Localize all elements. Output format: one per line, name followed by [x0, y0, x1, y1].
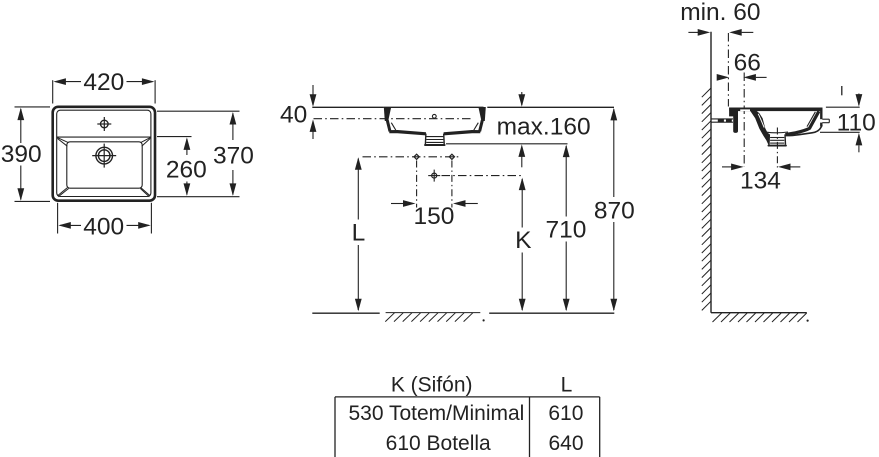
washbasin top view outer rim [53, 107, 155, 201]
table box [335, 397, 600, 457]
dimension 390 extension lines [15, 107, 51, 201]
dimension 390 line and arrows [17, 108, 24, 201]
dimension K line [519, 178, 526, 312]
svg-text:370: 370 [213, 143, 254, 170]
svg-text:640: 640 [548, 432, 583, 455]
table row 2 K value [386, 432, 491, 455]
svg-text:max.160: max.160 [497, 113, 591, 140]
ground hatching [385, 313, 484, 322]
dimension 390 text [1, 141, 42, 168]
svg-text:110: 110 [837, 109, 876, 136]
front basin left rim wedge [384, 107, 391, 121]
svg-text:390: 390 [1, 141, 42, 168]
svg-text:150: 150 [413, 203, 454, 230]
dimension 370 extension lines [157, 111, 240, 197]
svg-text:400: 400 [83, 214, 124, 241]
countertop line right of basin [487, 106, 614, 108]
front basin overflow hole [432, 114, 436, 118]
svg-text:134: 134 [740, 167, 781, 194]
front basin bottom right [444, 132, 481, 134]
dimension 134 arrows [722, 164, 800, 171]
dimension 110 tick [841, 86, 843, 95]
dimension 110 text [837, 109, 876, 136]
dimension 400 text [83, 214, 124, 241]
svg-text:40: 40 [280, 102, 307, 129]
side basin drain boss [769, 134, 786, 145]
basin front rim line [384, 106, 484, 108]
svg-text:870: 870 [594, 197, 635, 224]
dimension max.160 bottom arrow [518, 144, 525, 167]
floor hatching [713, 313, 809, 322]
top view deck line [57, 136, 151, 138]
dimension 370 line and arrows [230, 112, 237, 196]
dimension 400 line and arrows [58, 222, 150, 229]
svg-text:K (Sifón): K (Sifón) [391, 374, 473, 397]
dimension 370 text [213, 143, 254, 170]
countertop tab right (side view) [822, 119, 829, 123]
svg-text:260: 260 [166, 156, 207, 183]
drain axis centerline (side) [776, 128, 778, 168]
dimension 150 text [413, 203, 454, 230]
side basin bowl wall left inner hairline [758, 114, 764, 128]
front basin right wall [474, 120, 483, 131]
dimension 40 text [280, 102, 307, 129]
dimension 110 arrows [856, 94, 863, 153]
front basin drain boss [425, 134, 445, 145]
dimension 110 extension lines [820, 107, 860, 132]
svg-text:530 Totem/Minimal: 530 Totem/Minimal [348, 402, 524, 425]
dimension 420 line and arrows [53, 78, 154, 85]
top view bowl outline [67, 142, 142, 188]
max.160 bottom extension line [446, 143, 568, 145]
floor line [711, 312, 807, 314]
svg-text:610 Botella: 610 Botella [386, 432, 491, 455]
wall hatching [702, 88, 711, 310]
mounting holes centerline [363, 156, 461, 158]
dimension 260 line and arrows [184, 137, 191, 196]
wall line [710, 32, 712, 313]
side basin bowl wall right [785, 111, 819, 134]
side basin bowl floor line [767, 131, 789, 134]
faucet axis centerline (side) [727, 33, 729, 107]
mounting hole right axis [451, 161, 453, 208]
drain axis centerline [442, 175, 523, 177]
dimension 260 extension line [157, 136, 192, 138]
ground line [312, 312, 614, 314]
mounting hole right diamond [449, 154, 454, 159]
dimension 870 text [594, 197, 635, 224]
table header L [561, 374, 573, 397]
top view drain [92, 144, 116, 168]
dimension 150 arrows [391, 200, 478, 207]
svg-text:K: K [515, 227, 532, 254]
side basin rim band [729, 108, 822, 112]
dimension max.160 text [497, 113, 591, 140]
side basin rear wall [729, 108, 738, 133]
table row 2 L value [548, 432, 583, 455]
dimension 260 text [166, 156, 207, 183]
mounting hole left axis [416, 161, 418, 208]
svg-text:710: 710 [545, 217, 586, 244]
dimension max.160 top arrow [518, 92, 525, 107]
front basin right rim wedge [478, 107, 485, 121]
rear fixing axis centerline (side) [743, 73, 745, 168]
dimension L line [355, 157, 362, 311]
svg-text:L: L [561, 374, 573, 397]
top view faucet hole [97, 117, 111, 131]
dimension min.60 arrows [688, 29, 753, 36]
mounting hole left diamond [414, 154, 419, 159]
dimension 870 line [610, 108, 617, 311]
table row 1 K value [348, 402, 524, 425]
svg-text:min. 60: min. 60 [680, 0, 760, 26]
front basin left wall [387, 120, 396, 131]
top view bowl corner bevels [57, 138, 150, 197]
svg-text:66: 66 [734, 49, 761, 76]
svg-text:420: 420 [83, 69, 124, 96]
dimension K text [515, 227, 532, 254]
dimension 400 extension lines [58, 203, 152, 234]
dimension 420 text [83, 69, 124, 96]
washbasin top view inner rim [57, 110, 151, 196]
dimension 66 arrows [717, 74, 767, 81]
dimension 66 text [734, 49, 761, 76]
table header K (Sifon) [391, 374, 473, 397]
drain axis symbol [428, 170, 440, 182]
dimension 134 text [740, 167, 781, 194]
svg-text:610: 610 [548, 402, 583, 425]
side basin right edge [786, 108, 822, 136]
side basin bowl wall left [750, 111, 769, 145]
dimension 40 arrows [310, 85, 317, 139]
svg-text:L: L [352, 219, 366, 246]
countertop edge (side view) [712, 119, 734, 122]
table row 1 L value [548, 402, 583, 425]
front basin centerline [314, 118, 474, 120]
dimension L text [352, 219, 366, 246]
countertop line left of basin [312, 106, 383, 108]
dimension 710 text [545, 217, 586, 244]
dimension 710 line [563, 145, 570, 312]
dimension min.60 text [680, 0, 760, 26]
front basin bottom left [389, 132, 426, 134]
dimension 420 extension lines [53, 80, 155, 103]
